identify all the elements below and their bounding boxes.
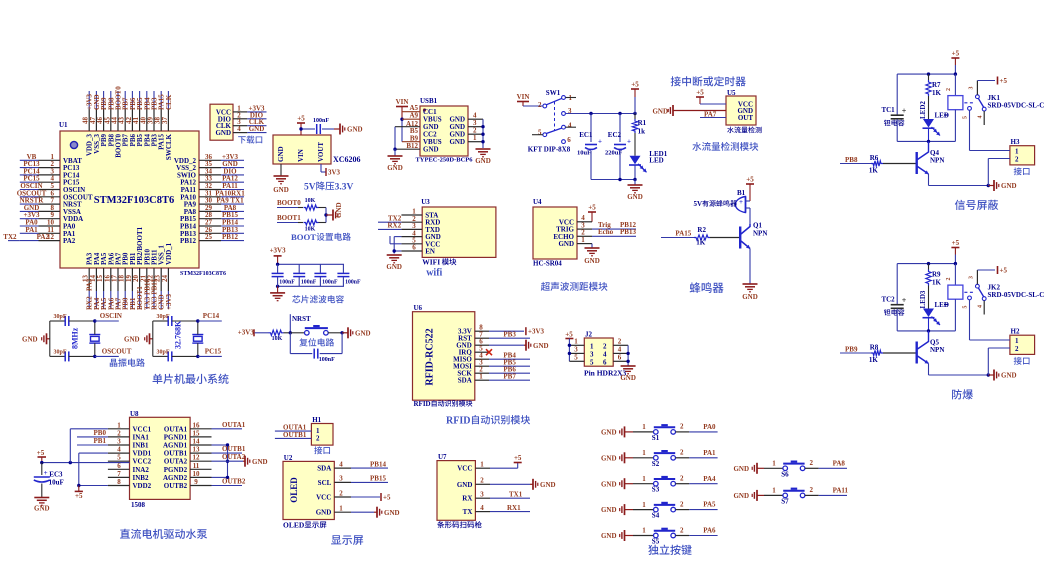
net PB14 at U2 SDA	[351, 460, 388, 468]
svg-text:4: 4	[480, 504, 484, 512]
svg-text:OSCOUT: OSCOUT	[102, 347, 132, 355]
svg-text:+3V3: +3V3	[238, 329, 255, 337]
svg-text:GND: GND	[601, 480, 617, 488]
wire relay pin5 to H3 pin1	[970, 110, 1010, 150]
driver U8 1508 body	[130, 410, 191, 509]
power +5 at buzzer	[746, 176, 754, 202]
svg-text:PC15: PC15	[205, 347, 222, 355]
svg-text:2: 2	[946, 88, 952, 91]
svg-text:2: 2	[680, 500, 684, 508]
U1 pin 30 PA9 wire + net PA9 TX1	[184, 197, 244, 209]
svg-text:EC2: EC2	[608, 131, 622, 139]
caption RFID module	[446, 415, 530, 426]
module U2 OLED body	[283, 454, 334, 530]
svg-text:RX2: RX2	[388, 221, 402, 229]
svg-text:OUT: OUT	[738, 114, 754, 122]
ground at U2 GND (right)	[351, 507, 400, 518]
svg-text:30pF: 30pF	[157, 349, 170, 355]
ground at USB right	[475, 149, 491, 165]
svg-text:GND: GND	[601, 454, 617, 462]
svg-text:Echo: Echo	[598, 228, 614, 236]
U1 pin 6 OSCOUT wire + net OSCOUT	[17, 189, 93, 201]
net PB3 at U6 RST	[489, 331, 530, 339]
svg-text:30pF: 30pF	[157, 314, 170, 320]
svg-text:100nF: 100nF	[345, 279, 361, 285]
power +5 at relay contact JK2	[998, 266, 1008, 275]
transistor Q5 NPN	[916, 331, 945, 364]
ground at reset (right)	[342, 327, 370, 338]
U8 pin 11 stub	[190, 462, 211, 470]
U1 pin 29 PA8 wire + net PA8	[184, 204, 244, 216]
resistor R7 1K	[926, 74, 942, 100]
svg-text:4: 4	[117, 446, 121, 454]
ground at U5 (left)	[652, 105, 726, 116]
svg-text:PA2: PA2	[63, 237, 76, 245]
svg-text:11: 11	[193, 462, 200, 470]
svg-text:STM32F103C8T6: STM32F103C8T6	[180, 271, 226, 277]
svg-text:1: 1	[581, 236, 585, 244]
push button S6	[764, 459, 819, 478]
wire relay contact to +5	[977, 269, 995, 271]
wire relay JK1 bottom rail	[897, 140, 955, 143]
U2 pin 3 stub	[334, 475, 351, 483]
U1 pin 48 VDD_3 wire + net +3V3	[82, 91, 94, 156]
svg-text:2: 2	[538, 101, 542, 109]
U1 pin 1 VBAT wire + net VB	[20, 153, 82, 165]
caption water flow module	[692, 142, 758, 151]
svg-text:VCC1: VCC1	[133, 425, 152, 433]
U8 pin 1 stub	[108, 421, 130, 429]
ground at EC3	[34, 498, 50, 513]
svg-text:5: 5	[574, 353, 578, 361]
resistor R8 1K	[869, 344, 916, 364]
U1 pin 28 PB15 wire + net PB15	[180, 211, 244, 223]
U8 pin 15 stub	[190, 429, 211, 437]
U2 pin 2 stub	[334, 489, 351, 497]
svg-text:1: 1	[479, 373, 483, 381]
U3 pin 3 stub	[401, 222, 422, 230]
U1 pin 11 PA1 wire + net PA1	[20, 226, 76, 238]
wire relay JK1 top rail	[897, 72, 957, 75]
svg-text:EN: EN	[425, 248, 435, 256]
capacitor 30pF top crystal 2	[157, 314, 198, 326]
wire relay contact to +5	[977, 80, 995, 82]
svg-text:GND: GND	[277, 146, 285, 162]
U1 pin 37 SWCLK wire + net CLK	[161, 91, 173, 160]
power +3V3 at filter caps	[270, 247, 287, 265]
svg-text:RX: RX	[462, 495, 472, 503]
caption download port	[238, 136, 262, 144]
net PB5 at U6 MOSI	[489, 359, 530, 367]
svg-text:2: 2	[480, 477, 484, 485]
svg-text:+5: +5	[631, 81, 639, 89]
svg-text:6: 6	[603, 358, 607, 366]
ground at U6 GND (right)	[489, 340, 549, 351]
svg-text:12: 12	[193, 454, 201, 462]
ground at button S6	[733, 463, 764, 474]
svg-text:S7: S7	[781, 497, 789, 505]
svg-text:1K: 1K	[932, 89, 942, 97]
caption independent buttons	[648, 545, 691, 555]
U3 pin 2 stub	[401, 215, 422, 223]
ground at U3	[386, 255, 402, 271]
LED LED1	[629, 150, 668, 180]
net OUTB1 at U8 pin13	[212, 445, 246, 453]
U1 pin 15 PA5 wire + net PA5	[96, 252, 108, 310]
svg-text:5: 5	[590, 358, 594, 366]
label JK2 SRD-05VDC-SL-C	[988, 284, 1045, 300]
capacitor 100nF filter #3	[314, 264, 338, 286]
wire crystal 1 left bus	[50, 321, 65, 356]
wire relay pin5 to H2 pin1	[970, 300, 1010, 340]
wire Q5 emitter to ground rail	[929, 364, 991, 377]
U2 pin 1 stub	[334, 505, 351, 513]
capacitor 30pF bottom crystal 2	[157, 349, 198, 361]
U1 pin 23 VSS_1 wire + net GND	[154, 245, 166, 310]
wire U8 AGND bus	[212, 443, 230, 479]
pin label A12	[406, 120, 419, 128]
svg-text:9: 9	[194, 478, 198, 486]
switch SW1 KFT DIP-8X8	[528, 89, 576, 154]
net PA5 at button S4	[689, 501, 717, 510]
svg-text:STM32F103C8T6: STM32F103C8T6	[94, 195, 175, 206]
svg-text:GND: GND	[457, 481, 473, 489]
svg-text:R2: R2	[697, 226, 706, 234]
svg-text:Q1: Q1	[753, 222, 762, 230]
net PA15 wire to R2	[661, 230, 694, 238]
svg-text:VIN: VIN	[517, 93, 530, 101]
svg-text:5V: 5V	[304, 183, 316, 193]
svg-text:+3V3: +3V3	[165, 293, 173, 310]
svg-text:PA5: PA5	[703, 501, 716, 509]
power +5 at J2	[565, 331, 573, 362]
U1 pin 19 PB1 wire + net PB1	[125, 252, 137, 310]
pin label B12	[406, 142, 418, 150]
push button S4	[633, 500, 689, 519]
wire H2 pin2 to ground rail	[988, 348, 1010, 375]
U6 pin 4 stub	[475, 352, 489, 360]
svg-text:+: +	[902, 296, 907, 305]
ground at button S5	[601, 530, 633, 541]
connector J2 Pin HDR2X3 body	[584, 331, 627, 378]
wire VDD1 VDD2 to +5	[77, 453, 108, 491]
ground at J2	[620, 366, 636, 382]
svg-text:OUTA1: OUTA1	[164, 425, 188, 433]
svg-text:OUTB2: OUTB2	[222, 478, 246, 486]
wire relay JK2 top rail	[897, 262, 957, 265]
power +5 at relay contact JK1	[998, 77, 1008, 86]
svg-text:EC1: EC1	[579, 131, 593, 139]
net TX2 to U3	[378, 215, 402, 223]
net OUTB1 to H1	[275, 431, 312, 439]
U3 pin 6 stub	[401, 244, 422, 252]
svg-text:PC14: PC14	[203, 312, 220, 320]
svg-text:2: 2	[316, 435, 320, 443]
svg-text:7: 7	[117, 470, 121, 478]
svg-text:VOUT: VOUT	[317, 142, 325, 162]
svg-text:PGND2: PGND2	[164, 466, 188, 474]
net PA1 at button S2	[689, 449, 717, 458]
svg-text:3: 3	[969, 87, 975, 90]
svg-text:GND: GND	[627, 193, 643, 201]
U8 pin 8 stub	[108, 478, 130, 486]
wire VIN to USB pins A5 A9	[400, 107, 420, 142]
svg-text:2: 2	[680, 526, 684, 534]
svg-text:H1: H1	[312, 416, 321, 424]
ground at LED1 rail	[627, 185, 643, 201]
ground at button S3	[601, 478, 633, 489]
svg-text:VCC2: VCC2	[133, 458, 152, 466]
caption interrupt or timer	[671, 76, 746, 86]
U1 pin 2 PC13 wire + net PC13	[20, 160, 80, 172]
net PB0 at U8 INA1	[77, 429, 108, 437]
svg-text:R6: R6	[870, 154, 879, 162]
svg-text:GND: GND	[620, 374, 636, 382]
wire U3 GND/VCC/EN bus	[390, 236, 401, 254]
LED LED3	[919, 286, 949, 331]
net OUTA1 to H1	[275, 424, 312, 432]
svg-text:5: 5	[963, 306, 969, 309]
net PB8 wire to R6	[840, 156, 871, 164]
svg-text:1: 1	[642, 475, 646, 483]
svg-text:GND: GND	[584, 257, 600, 265]
svg-text:32.768K: 32.768K	[173, 320, 182, 349]
resistor R2 1K	[694, 226, 739, 247]
wire crystal 2 left bus	[153, 321, 168, 356]
svg-text:2: 2	[680, 449, 684, 457]
svg-text:1: 1	[1015, 337, 1019, 345]
svg-text:15: 15	[193, 429, 201, 437]
ground at relay JK2	[988, 370, 1016, 381]
svg-text:GND: GND	[652, 108, 668, 116]
wire BOOT junction to ground	[324, 208, 333, 223]
svg-text:PB12: PB12	[180, 237, 196, 245]
resistor 10K BOOT1	[298, 220, 326, 233]
svg-text:13: 13	[193, 446, 201, 454]
svg-text:GND: GND	[1001, 182, 1017, 190]
power VIN at USB	[396, 98, 409, 107]
U8 pin 4 stub	[108, 446, 130, 454]
net PB9 wire to R8	[840, 346, 871, 354]
svg-text:1: 1	[772, 487, 776, 495]
resistor R6 1K	[869, 154, 916, 174]
capacitor 30pF top crystal 1	[54, 314, 95, 326]
wire USB left GND pins to ground	[393, 127, 420, 156]
U1 pin 8 VSSA wire + net GND	[20, 204, 81, 216]
svg-text:4: 4	[978, 305, 984, 308]
U7 pin 1 stub	[475, 461, 490, 469]
U4 pin 2 ECHO wire + net Echo PB13	[577, 228, 636, 236]
U4 pin 4 VCC wire	[577, 214, 592, 222]
U1 pin 25 PB12 wire + net PB12	[180, 233, 244, 245]
svg-text:SCL: SCL	[318, 479, 332, 487]
svg-text:GND: GND	[423, 146, 439, 154]
U8 pin 2 stub	[108, 429, 130, 437]
ground at U7 GND (right)	[490, 479, 556, 490]
svg-text:TC2: TC2	[881, 296, 895, 304]
svg-text:6: 6	[618, 353, 622, 361]
svg-text:GND: GND	[558, 240, 574, 248]
net TX1 at U7 RX	[490, 491, 530, 499]
module U3 wifi body	[421, 198, 496, 267]
svg-text:16: 16	[193, 421, 201, 429]
push button reset	[290, 325, 344, 335]
svg-text:OSCIN: OSCIN	[100, 312, 122, 320]
svg-text:B1: B1	[737, 189, 746, 197]
power +5 at U7 VCC	[490, 454, 522, 468]
capacitor 100nF filter #1	[272, 264, 296, 286]
ground at button S7	[733, 490, 764, 501]
U1 pin 22 PB11 wire + net RX3 PB11	[147, 249, 159, 310]
svg-text:PGND1: PGND1	[164, 433, 188, 441]
svg-text:PB9: PB9	[845, 346, 858, 354]
U4 pin 3 TRIG wire + net Trig PB12	[577, 221, 636, 229]
power +5 at U5	[696, 89, 726, 105]
buzzer B1	[694, 189, 746, 213]
net RX2 to U3	[378, 221, 402, 229]
U1 pin 44 BOOT0 wire + net BOOT0	[111, 86, 123, 158]
svg-text:RFID: RFID	[414, 400, 431, 408]
svg-text:+5: +5	[75, 492, 83, 500]
svg-text:PA4: PA4	[703, 475, 716, 483]
svg-text:SDA: SDA	[458, 377, 472, 385]
svg-text:+5: +5	[37, 449, 45, 457]
svg-text:PA2: PA2	[37, 233, 50, 241]
svg-text:6: 6	[567, 136, 571, 144]
svg-text:+: +	[598, 138, 602, 146]
U1 pin 46 PB9 wire + net PB9	[96, 91, 108, 146]
svg-text:2: 2	[680, 475, 684, 483]
svg-text:GND: GND	[540, 481, 556, 489]
svg-text:10K: 10K	[272, 336, 283, 342]
ground at Q1	[742, 284, 758, 301]
svg-text:SWCLK: SWCLK	[165, 133, 173, 160]
power +5 symbol at XC6206	[297, 115, 305, 124]
svg-text:PB1: PB1	[94, 437, 107, 445]
svg-text:4: 4	[978, 116, 984, 119]
svg-text:+5: +5	[952, 239, 960, 247]
svg-text:VCC: VCC	[457, 465, 472, 473]
svg-text:VDD_1: VDD_1	[165, 242, 173, 265]
U1 pin 18 PB0 wire + net PB0	[118, 252, 130, 310]
U6 pin 6 stub	[475, 338, 489, 346]
svg-text:GND: GND	[601, 506, 617, 514]
download port pin 1 wire + net +3V3	[233, 104, 267, 112]
net PC14	[196, 312, 222, 323]
svg-text:24: 24	[161, 275, 169, 283]
svg-text:GND: GND	[252, 458, 268, 466]
relay JK1 coil	[946, 74, 963, 141]
pin label B9	[410, 134, 419, 142]
svg-text:+5: +5	[1000, 267, 1008, 275]
U6 pin 5 stub	[475, 345, 489, 353]
svg-text:GND: GND	[386, 263, 402, 271]
svg-text:5V: 5V	[694, 200, 703, 208]
svg-text:100nF: 100nF	[319, 357, 335, 363]
svg-text:TC1: TC1	[881, 106, 895, 114]
power +5 at relay JK1	[951, 50, 959, 75]
svg-text:OUTB2: OUTB2	[164, 482, 188, 490]
svg-text:GND: GND	[733, 465, 749, 473]
svg-text:VIN: VIN	[396, 98, 409, 106]
caption DC motor pump driver	[120, 529, 207, 539]
svg-text:37: 37	[161, 117, 169, 125]
svg-text:+: +	[627, 138, 631, 146]
svg-text:10uF: 10uF	[49, 478, 64, 486]
svg-text:4: 4	[568, 122, 572, 130]
svg-text:R9: R9	[932, 271, 941, 279]
wire buzzer to +5 and Q1 collector	[746, 201, 751, 224]
svg-text:1: 1	[339, 505, 343, 513]
svg-text:1: 1	[590, 342, 594, 350]
svg-text:1K: 1K	[932, 279, 942, 287]
net PB1 at U8 INB1	[77, 437, 108, 445]
transistor Q1 NPN	[739, 222, 767, 249]
svg-text:BOOT0: BOOT0	[277, 199, 301, 207]
svg-text:2: 2	[339, 489, 343, 497]
ground at U4	[584, 248, 600, 265]
svg-text:NRST: NRST	[292, 315, 311, 323]
svg-text:+5: +5	[514, 454, 522, 462]
wire J2 right pins	[613, 337, 630, 366]
svg-text:GND: GND	[533, 342, 549, 350]
svg-text:14: 14	[193, 438, 201, 446]
power +5 at LED1 rail	[631, 81, 639, 114]
connector H3 body	[1010, 138, 1035, 175]
ground at button S4	[601, 504, 633, 515]
U1 pin 17 PA7 wire + net PA7	[111, 252, 123, 310]
U1 pin 20 PB2/BOOT1 wire + net BOOT1	[132, 226, 144, 310]
U1 pin 36 VDD_2 wire + net +3V3	[174, 153, 244, 165]
svg-text:4: 4	[339, 460, 343, 468]
relay JK2 contact	[963, 270, 987, 315]
svg-text:H3: H3	[1011, 138, 1020, 146]
svg-text:TYPEC-250D-BCP6: TYPEC-250D-BCP6	[415, 157, 473, 164]
net BOOT1 label + wire	[277, 214, 301, 223]
module U6 RFID-RC522 body	[413, 304, 475, 408]
svg-text:GND: GND	[34, 505, 50, 513]
net OUTB2 at U8 pin9	[212, 478, 246, 486]
svg-text:GND: GND	[449, 138, 465, 146]
svg-text:TX1: TX1	[509, 491, 523, 499]
U3 pin 1 stub	[401, 208, 422, 216]
download port pin 4 wire + net GND	[233, 125, 267, 133]
svg-text:NPN: NPN	[753, 230, 767, 238]
svg-text:J2: J2	[585, 331, 593, 339]
ground at XC6206 GND pin	[273, 164, 289, 194]
svg-text:+3V3: +3V3	[270, 247, 287, 255]
svg-text:U6: U6	[414, 304, 423, 312]
svg-text:GND: GND	[355, 329, 371, 337]
svg-text:PA11: PA11	[833, 487, 849, 495]
svg-text:3: 3	[339, 475, 343, 483]
regulator U: XC6206 body	[273, 135, 361, 164]
svg-text:+: +	[902, 107, 907, 116]
caption MCU minimal system	[153, 374, 229, 384]
net PB6 at U6 SCK	[489, 366, 530, 374]
svg-text:PB3: PB3	[503, 331, 516, 339]
U1 pin 32 PA11 wire + net PA11	[181, 182, 244, 194]
caption buzzer	[690, 282, 724, 293]
svg-text:30pF: 30pF	[54, 314, 67, 320]
U3 pin 4 stub	[401, 229, 422, 237]
push button S1	[633, 423, 689, 442]
ground at U8 right	[245, 456, 268, 467]
svg-text:1: 1	[642, 501, 646, 509]
svg-text:25: 25	[205, 233, 213, 241]
push button S2	[633, 449, 689, 468]
pin label A9	[409, 112, 418, 120]
